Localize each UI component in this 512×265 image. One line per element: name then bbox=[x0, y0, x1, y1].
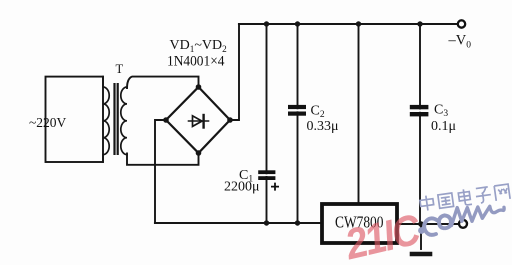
wire: CW7800 input from top rail bbox=[358, 24, 360, 202]
watermark script .com bbox=[418, 206, 504, 235]
svg-text:0.33μ: 0.33μ bbox=[307, 119, 339, 134]
transformer T secondary winding bbox=[121, 87, 127, 155]
char wang bbox=[494, 184, 510, 201]
svg-text:C3: C3 bbox=[434, 103, 448, 120]
char guo bbox=[438, 193, 454, 208]
svg-text:–V0: –V0 bbox=[448, 33, 472, 51]
diode symbol cathode bar bbox=[202, 115, 204, 128]
wire: bottom rail right of CW7800 to output terminal bbox=[398, 223, 458, 225]
diode symbol triangle bbox=[193, 116, 203, 127]
wire: secondary bottom to bridge bottom vertex bbox=[127, 153, 199, 165]
script period dot bbox=[418, 227, 425, 234]
wire: C2 branch vertical bbox=[297, 24, 299, 223]
bridge rectifier diamond bbox=[166, 87, 230, 153]
capacitor C3 plates bbox=[410, 105, 429, 117]
capacitor C2 plates bbox=[288, 105, 306, 116]
wire: bridge left vertex to ground rail bbox=[155, 120, 166, 223]
script m with tail bbox=[452, 206, 505, 225]
wire: top +V rail bbox=[239, 23, 458, 25]
capacitor C1 plates (electrolytic 2200u) bbox=[258, 170, 275, 180]
wire: bottom ground rail left of CW7800 bbox=[155, 222, 321, 224]
svg-text:~220V: ~220V bbox=[29, 115, 67, 130]
diode symbol lead bbox=[189, 120, 209, 122]
wire: C3 branch vertical bbox=[419, 24, 421, 223]
svg-text:C2: C2 bbox=[311, 104, 325, 121]
node: bridge bottom vertex bbox=[196, 150, 202, 156]
char zhong bbox=[419, 195, 434, 212]
ground symbol bar bbox=[412, 252, 430, 257]
node: top rail C1 junction bbox=[264, 21, 269, 26]
wire: C1 branch vertical bbox=[266, 24, 268, 223]
svg-text:0.1μ: 0.1μ bbox=[431, 119, 456, 134]
svg-text:1N4001×4: 1N4001×4 bbox=[167, 53, 225, 69]
node: bottom rail C2 junction bbox=[295, 220, 300, 225]
transformer T primary winding bbox=[103, 77, 109, 162]
regulator U1 CW7800 box bbox=[322, 204, 397, 243]
AC source ~220V box bbox=[46, 77, 104, 162]
white gap masks for C1 through-wire bbox=[265, 174, 269, 176]
wire: secondary top to bridge top vertex bbox=[127, 77, 199, 88]
node: bridge left vertex bbox=[163, 117, 169, 123]
node: bottom rail C3/ground junction bbox=[418, 221, 424, 227]
node: bridge top vertex bbox=[196, 84, 202, 90]
svg-text:VD1~VD2: VD1~VD2 bbox=[170, 38, 228, 54]
watermark chinese 中国电子网 bbox=[419, 183, 510, 211]
ground symbol stem bbox=[420, 224, 422, 249]
char dian bbox=[458, 188, 472, 206]
node: bridge right vertex bbox=[227, 117, 233, 123]
node: top rail CW7800 junction bbox=[356, 21, 361, 26]
node: top rail C2 junction bbox=[295, 21, 300, 26]
output terminal top (+) bbox=[458, 20, 465, 27]
svg-text:T: T bbox=[116, 62, 124, 76]
node: top rail C3 junction bbox=[417, 21, 422, 26]
wire: bridge right vertex up to +V rail bbox=[230, 24, 239, 120]
capacitor C1 polarity plus bbox=[271, 183, 279, 191]
node: bottom rail C1 junction bbox=[264, 220, 269, 225]
svg-text:2200μ: 2200μ bbox=[224, 180, 260, 195]
script c bbox=[424, 218, 437, 234]
script o bbox=[439, 215, 451, 228]
transformer T core bbox=[113, 83, 118, 155]
output terminal bottom bbox=[459, 220, 467, 228]
char zi bbox=[475, 187, 492, 204]
